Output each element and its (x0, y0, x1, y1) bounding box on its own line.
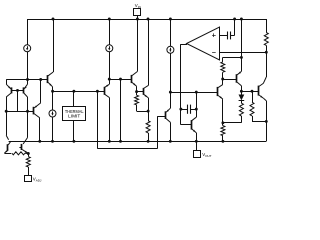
wire U1 plus stub (219, 35, 227, 37)
node Q6 emitter (135, 90, 138, 93)
node R5 R6 join (147, 110, 150, 113)
node comp node (179, 108, 182, 111)
resistor R4 (252, 91, 254, 102)
wire x109 from rail (109, 19, 111, 45)
wire bus y79 right part (109, 79, 131, 81)
node emitter rail junctions (26, 78, 29, 81)
transistor Q11 PNP (223, 79, 237, 81)
wire x241 from rail (241, 19, 243, 57)
current source I4 (106, 45, 113, 52)
transistor Q5 NPN (104, 87, 106, 95)
wire Q1 Q2 base join (12, 90, 24, 92)
transistor Q3 PNP (33, 107, 35, 115)
transistor Q14 NPN bandgap right (27, 111, 29, 137)
wire VIN stub (137, 16, 139, 20)
wire top supply rail (27, 19, 266, 21)
transistor Q12 NPN output (258, 86, 260, 96)
wire I2 from rail (170, 19, 172, 46)
op-amp U1 (187, 27, 220, 60)
node top rail junctions (52, 18, 55, 21)
wire bus y92 (170, 92, 217, 94)
wire PNP mirror emitter rail (6, 79, 48, 81)
wire feedback run y148.6 (97, 148, 157, 150)
wire x120 drop (120, 79, 122, 141)
node Q2 collector junction (26, 110, 29, 113)
transistor Q1 PNP mirror left (6, 80, 8, 85)
wire top rail left corner down to I1 (27, 19, 29, 45)
current source I2 (167, 46, 174, 53)
resistor R8 (28, 154, 30, 157)
wire R3 bottom to Q10 emitter (223, 122, 242, 124)
wire bottom rail (9, 141, 267, 143)
resistor R7 (222, 123, 224, 126)
wire VOUT stub (196, 141, 198, 150)
wire I2 down (170, 53, 172, 92)
transistor Q2 PNP mirror right (27, 80, 29, 85)
resistor R3 (239, 103, 243, 116)
transistor Q7 NPN (143, 88, 145, 95)
wire node row y111 (6, 111, 33, 113)
capacitor C2 (181, 109, 188, 111)
resistor R6 (148, 111, 150, 121)
wire x196 drop (196, 92, 198, 117)
resistor R2 (222, 72, 224, 79)
wire feedback drop x97 (97, 91, 99, 148)
node Q10 collector node (221, 78, 224, 81)
node Q1 collector-base tie (5, 110, 8, 113)
block THERMAL LIMIT (63, 107, 86, 121)
terminal VOUT (194, 151, 201, 158)
node y79 junctions (108, 78, 111, 81)
resistor R5 (136, 92, 138, 96)
wire U1 output (181, 44, 187, 46)
terminal VADJ (25, 176, 32, 182)
transistor Q13 NPN bandgap left (6, 111, 8, 135)
wire thermal limit bottom (73, 121, 75, 142)
svg-text:VADJ: VADJ (33, 177, 42, 183)
wire R4 bottom right (252, 121, 266, 123)
node x266 y121 (265, 120, 268, 123)
node x241 y91 (240, 90, 243, 93)
capacitor C1 (227, 32, 229, 40)
wire U1 minus bus (219, 52, 266, 54)
svg-text:LIMIT: LIMIT (68, 113, 80, 118)
wire Q6 emitter to Q7 base (137, 91, 144, 93)
wire mid-left bus y91 (53, 91, 104, 93)
node bottom rail junctions (38, 140, 41, 143)
wire Q1 collector (6, 93, 11, 97)
wire R2 top to x241 (223, 57, 242, 59)
diode D1 (241, 91, 243, 95)
node cap right (195, 108, 198, 111)
current source I3 (52, 91, 54, 110)
wire Q2 collector (24, 93, 28, 97)
transistor Q6 NPN (131, 75, 133, 83)
node minus bus right (265, 51, 268, 54)
transistor Q8 PNP (170, 92, 172, 108)
node ADJ top (27, 152, 30, 155)
wire top rail right corner down to R1 (266, 19, 268, 33)
svg-text:VOUT: VOUT (202, 152, 211, 158)
transistor Q4 NPN (47, 75, 49, 83)
wire thermal limit top (73, 91, 75, 106)
resistor R9 horizontal (12, 152, 25, 155)
node y91 mid (251, 90, 254, 93)
wire feedback rise x157 (157, 116, 159, 148)
node mid-left bus junctions (51, 90, 54, 93)
wire y91 right (241, 91, 258, 93)
transistor Q10 NPN (217, 87, 219, 96)
node y122.8 (221, 121, 224, 124)
current source I1 (24, 45, 31, 52)
node x241 y57 (240, 56, 243, 59)
node bus y92 junctions (169, 91, 172, 94)
node base join (16, 89, 19, 92)
transistor Q9 NPN (180, 109, 182, 125)
wire base drop to node (17, 90, 19, 111)
resistor R1 (264, 33, 268, 46)
wire I1 to PNP emitter rail (27, 52, 29, 80)
terminal VIN (134, 9, 141, 16)
